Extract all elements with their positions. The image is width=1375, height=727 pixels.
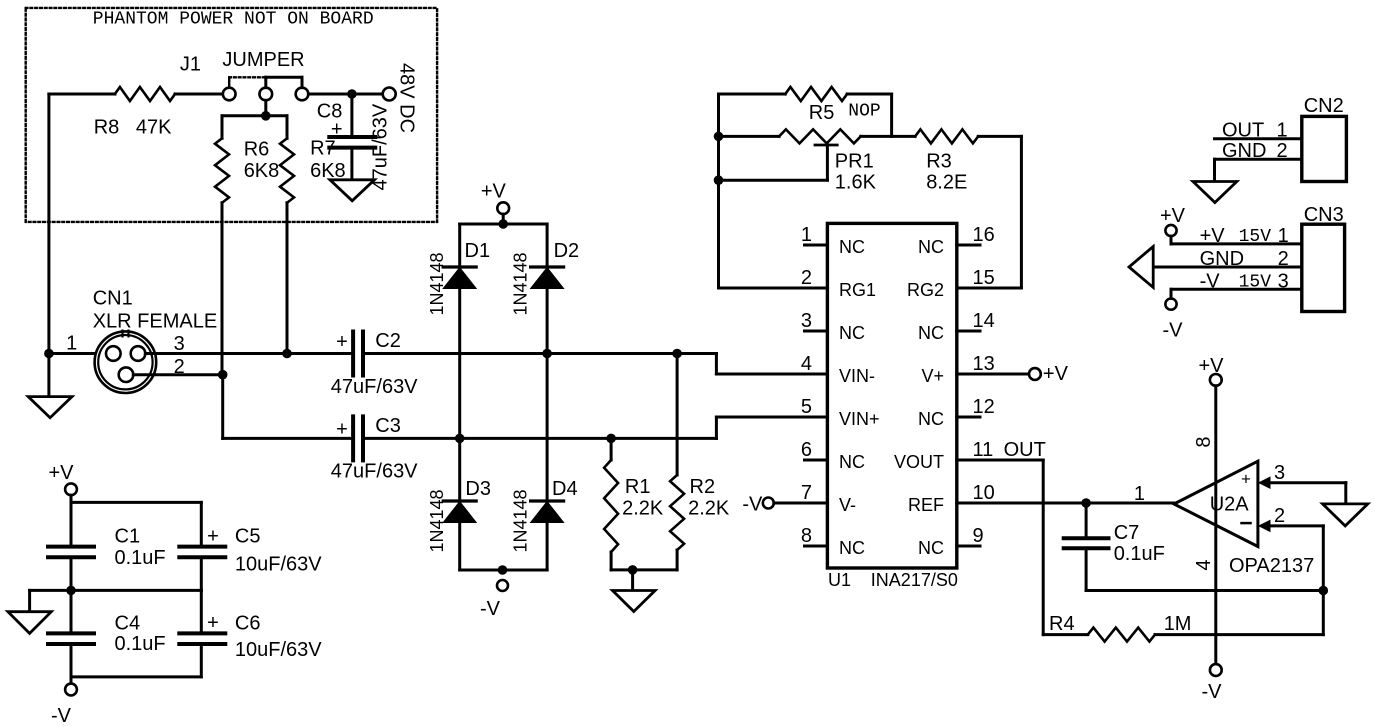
svg-text:NC: NC [839, 538, 865, 558]
svg-text:-V: -V [742, 494, 763, 516]
svg-text:1N4148: 1N4148 [427, 252, 447, 315]
svg-text:1M: 1M [1164, 613, 1192, 635]
svg-text:NC: NC [839, 323, 865, 343]
svg-text:15: 15 [973, 267, 995, 289]
svg-text:CN3: CN3 [1304, 204, 1344, 226]
svg-text:R5: R5 [809, 102, 835, 124]
svg-text:12: 12 [973, 396, 995, 418]
svg-text:D2: D2 [554, 240, 580, 262]
svg-text:10: 10 [973, 482, 995, 504]
svg-text:GND: GND [1222, 140, 1266, 162]
svg-text:3: 3 [174, 333, 185, 355]
svg-text:3: 3 [801, 310, 812, 332]
svg-text:U2A: U2A [1210, 494, 1250, 516]
svg-text:4: 4 [1193, 559, 1215, 570]
svg-text:JUMPER: JUMPER [222, 49, 304, 71]
svg-text:PHANTOM POWER NOT ON BOARD: PHANTOM POWER NOT ON BOARD [93, 10, 374, 30]
svg-text:D1: D1 [465, 240, 491, 262]
svg-text:NC: NC [839, 452, 865, 472]
svg-text:R1: R1 [625, 476, 651, 498]
svg-text:GND: GND [1200, 248, 1244, 270]
svg-text:1: 1 [1134, 483, 1145, 505]
svg-text:J1: J1 [180, 53, 201, 75]
svg-text:D4: D4 [552, 478, 578, 500]
svg-text:U1: U1 [828, 570, 851, 590]
svg-text:REF: REF [908, 495, 944, 515]
svg-text:1: 1 [1277, 120, 1288, 142]
svg-text:47K: 47K [136, 116, 172, 138]
svg-text:V+: V+ [921, 366, 944, 386]
svg-text:R6: R6 [244, 139, 270, 161]
svg-text:+: + [1241, 470, 1251, 489]
svg-text:C1: C1 [115, 526, 141, 548]
svg-text:+V: +V [481, 181, 507, 203]
svg-text:VIN-: VIN- [839, 366, 875, 386]
svg-text:OUT: OUT [1222, 120, 1264, 142]
svg-text:8.2E: 8.2E [926, 172, 967, 194]
svg-text:47uF/63V: 47uF/63V [370, 103, 392, 190]
svg-text:NOP: NOP [848, 102, 880, 122]
svg-text:C4: C4 [115, 613, 141, 635]
svg-text:14: 14 [973, 310, 995, 332]
svg-text:VIN+: VIN+ [839, 409, 880, 429]
svg-text:0.1uF: 0.1uF [1114, 543, 1165, 565]
svg-text:7: 7 [801, 482, 812, 504]
svg-text:16: 16 [973, 224, 995, 246]
svg-text:R4: R4 [1049, 613, 1075, 635]
svg-text:VOUT: VOUT [894, 452, 944, 472]
svg-text:48V DC: 48V DC [396, 63, 418, 133]
svg-text:D3: D3 [465, 478, 491, 500]
svg-text:3: 3 [1274, 462, 1285, 484]
svg-text:9: 9 [973, 525, 984, 547]
svg-text:NC: NC [839, 237, 865, 257]
svg-text:8: 8 [801, 525, 812, 547]
svg-text:C5: C5 [235, 526, 261, 548]
svg-text:47uF/63V: 47uF/63V [331, 461, 418, 483]
svg-text:NC: NC [918, 409, 944, 429]
svg-text:R8: R8 [94, 116, 120, 138]
svg-text:OUT: OUT [1004, 439, 1046, 461]
svg-text:+: + [336, 419, 348, 441]
svg-text:0.1uF: 0.1uF [115, 547, 166, 569]
svg-text:CN2: CN2 [1304, 95, 1344, 117]
svg-text:10uF/63V: 10uF/63V [235, 639, 322, 661]
svg-text:CN1: CN1 [93, 287, 133, 309]
svg-text:NC: NC [918, 538, 944, 558]
svg-text:+: + [207, 526, 219, 548]
svg-text:+: + [207, 612, 219, 634]
svg-text:13: 13 [973, 353, 995, 375]
svg-text:-V: -V [1200, 271, 1221, 293]
svg-text:1N4148: 1N4148 [427, 489, 447, 552]
svg-text:2: 2 [1274, 505, 1285, 527]
svg-text:NC: NC [918, 323, 944, 343]
svg-text:0.1uF: 0.1uF [115, 633, 166, 655]
svg-text:2: 2 [801, 267, 812, 289]
svg-text:1N4148: 1N4148 [511, 252, 531, 315]
svg-text:INA217/S0: INA217/S0 [871, 570, 958, 590]
svg-text:4: 4 [801, 353, 812, 375]
svg-text:C3: C3 [375, 415, 401, 437]
svg-text:+V: +V [1160, 205, 1186, 227]
svg-text:RG2: RG2 [907, 280, 944, 300]
svg-text:-V: -V [51, 705, 72, 727]
svg-text:+: + [336, 331, 348, 353]
svg-text:15V: 15V [1239, 227, 1272, 247]
svg-text:XLR FEMALE: XLR FEMALE [93, 311, 217, 333]
svg-text:10uF/63V: 10uF/63V [235, 554, 322, 576]
svg-text:8: 8 [1193, 436, 1215, 447]
svg-text:5: 5 [801, 396, 812, 418]
svg-text:R7: R7 [310, 137, 336, 159]
svg-text:3: 3 [1278, 271, 1289, 293]
svg-text:C6: C6 [235, 613, 261, 635]
svg-text:6K8: 6K8 [310, 160, 346, 182]
svg-text:6K8: 6K8 [244, 160, 280, 182]
svg-text:47uF/63V: 47uF/63V [331, 376, 418, 398]
svg-text:1: 1 [801, 224, 812, 246]
svg-text:2: 2 [1277, 140, 1288, 162]
svg-text:11: 11 [973, 439, 994, 461]
svg-text:2.2K: 2.2K [622, 498, 664, 520]
svg-text:PR1: PR1 [835, 151, 874, 173]
svg-text:C2: C2 [375, 330, 401, 352]
svg-text:RG1: RG1 [839, 280, 876, 300]
svg-text:+V: +V [48, 462, 74, 484]
svg-text:V-: V- [839, 495, 856, 515]
svg-text:1: 1 [1278, 225, 1289, 247]
svg-text:OPA2137: OPA2137 [1229, 555, 1314, 577]
svg-text:1: 1 [66, 333, 77, 355]
svg-text:-V: -V [480, 598, 501, 620]
svg-text:-V: -V [1163, 320, 1184, 342]
svg-text:+V: +V [1200, 225, 1226, 247]
svg-text:2: 2 [1278, 248, 1289, 270]
svg-text:NC: NC [918, 237, 944, 257]
svg-text:R3: R3 [926, 151, 952, 173]
svg-text:1N4148: 1N4148 [511, 489, 531, 552]
svg-text:-V: -V [1202, 681, 1223, 703]
svg-text:6: 6 [801, 439, 812, 461]
svg-text:1.6K: 1.6K [835, 172, 877, 194]
svg-text:15V: 15V [1239, 273, 1272, 293]
svg-text:R2: R2 [690, 476, 716, 498]
svg-text:C7: C7 [1114, 522, 1140, 544]
svg-text:+V: +V [1198, 355, 1224, 377]
svg-text:2.2K: 2.2K [688, 498, 730, 520]
svg-text:+V: +V [1043, 363, 1069, 385]
